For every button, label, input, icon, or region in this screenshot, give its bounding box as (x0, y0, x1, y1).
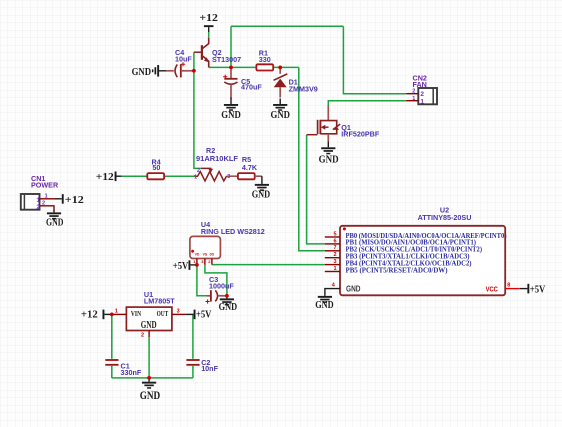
svg-text:GND: GND (221, 109, 241, 121)
wire Q2 emitter to R1 left (209, 66, 257, 68)
wire U4 +5V node down to C3 (197, 265, 207, 296)
ground (below C5) (221, 98, 241, 122)
svg-text:GND: GND (346, 285, 361, 294)
svg-text:91AR10KLF: 91AR10KLF (196, 154, 239, 163)
wire R1 right to vertical (273, 66, 299, 68)
svg-text:8: 8 (507, 283, 510, 289)
svg-text:VCC: VCC (486, 285, 499, 294)
transistor Q2 (194, 38, 209, 67)
svg-text:6: 6 (333, 238, 336, 244)
svg-text:VD: VD (195, 252, 200, 256)
wire C1 down to bottom rail (111, 366, 113, 378)
junction emitter node (229, 66, 233, 70)
wire bottom rail (112, 377, 193, 379)
svg-text:1: 1 (115, 308, 118, 314)
svg-text:10uF: 10uF (175, 55, 192, 64)
svg-text:GND: GND (141, 320, 157, 331)
junction R1/D1 (278, 66, 282, 70)
svg-text:GND: GND (46, 217, 64, 228)
junction U4 +5V (195, 263, 199, 267)
svg-text:+5V: +5V (530, 284, 546, 296)
wire Q1 gate to U2 pin6 PB1 (307, 135, 325, 244)
svg-text:1: 1 (412, 96, 415, 102)
wire +12 to Q2 collector (208, 32, 210, 38)
capacitor C5 (polarized) (223, 67, 237, 98)
svg-text:OUT: OUT (157, 310, 169, 318)
resistor R4 (147, 173, 164, 179)
svg-text:1: 1 (333, 266, 336, 272)
wire U4 DOUT to U2 pin3 PB4 (212, 264, 325, 266)
wire U1 pin1 node down to C1 (111, 314, 113, 358)
svg-text:POWER: POWER (31, 181, 59, 190)
svg-text:1000uF: 1000uF (209, 282, 234, 291)
capacitor C3 (polarized) (206, 290, 227, 303)
wire node to U2 pin7 PB2 (299, 67, 325, 250)
svg-text:1: 1 (36, 197, 40, 204)
capacitor C4 (polarized) (166, 62, 194, 77)
ground (U1 rail) (140, 378, 161, 402)
power +12 (CN1) (55, 194, 84, 206)
junction U1 pin1 (110, 313, 114, 317)
zener diode D1 (274, 67, 288, 97)
connector CN1 (21, 194, 55, 212)
svg-text:4.7K: 4.7K (242, 163, 258, 172)
power +5V (U4) (173, 260, 197, 272)
svg-text:2: 2 (420, 91, 424, 98)
power +12 top (199, 12, 218, 32)
svg-text:330nF: 330nF (121, 368, 142, 377)
capacitor C2 (186, 359, 199, 366)
svg-text:VS: VS (203, 252, 208, 256)
svg-text:+12: +12 (199, 12, 218, 24)
wire down to CN2 pin2 (343, 26, 406, 93)
IC U1 LM7805T (112, 307, 186, 338)
ground (R5) (252, 176, 271, 201)
svg-text:2: 2 (42, 201, 45, 207)
wire U1 pin2 to rail (148, 337, 150, 378)
svg-text:GND: GND (319, 154, 339, 166)
wire C4 node down to R2 wiper (194, 52, 201, 168)
ground flag (left of C4) (132, 65, 166, 78)
svg-text:ZMM3V9: ZMM3V9 (289, 85, 318, 94)
svg-text:GND: GND (132, 66, 152, 78)
svg-text:ST13007: ST13007 (212, 55, 241, 64)
svg-text:GND: GND (219, 301, 238, 313)
junction C3 GND (225, 294, 229, 298)
connector CN2 (406, 88, 437, 106)
svg-text:DO: DO (210, 252, 215, 256)
svg-text:3: 3 (227, 174, 230, 180)
svg-text:GND: GND (315, 299, 334, 311)
wire C2 down to rail (192, 366, 194, 378)
svg-text:FAN: FAN (413, 80, 427, 89)
svg-text:GND: GND (271, 109, 291, 121)
svg-text:IRF520PBF: IRF520PBF (341, 130, 380, 139)
IC U2 ATTINY85-20SU (325, 226, 520, 296)
svg-text:VIN: VIN (131, 310, 141, 318)
svg-text:50: 50 (152, 163, 160, 172)
wire R4 to R2 pin1 (164, 175, 194, 177)
svg-text:5: 5 (333, 231, 336, 237)
power +12 (R4) (96, 171, 121, 183)
svg-text:ATTINY85-20SU: ATTINY85-20SU (418, 213, 472, 222)
svg-text:7: 7 (333, 245, 336, 251)
wire top horizontal to FAN (231, 25, 343, 27)
svg-text:2: 2 (36, 204, 40, 211)
svg-text:3: 3 (333, 259, 336, 265)
wire CN2 pin1 to Q1 drain (328, 101, 406, 105)
svg-text:1: 1 (420, 99, 424, 106)
svg-text:1: 1 (194, 174, 197, 180)
power +12 (U1) (81, 309, 112, 321)
pin 4 GND (325, 289, 340, 296)
junction C4/base (192, 69, 196, 73)
svg-text:10nF: 10nF (201, 364, 218, 373)
svg-text:+12: +12 (81, 309, 98, 321)
svg-text:+12: +12 (96, 171, 115, 183)
wire +12 to R4 (121, 175, 147, 177)
ground (CN1 pin2) (46, 211, 64, 229)
svg-text:2: 2 (141, 332, 144, 338)
svg-text:470uF: 470uF (241, 83, 262, 92)
svg-text:3: 3 (177, 308, 180, 314)
wire +5V corner down to C2 (192, 315, 194, 359)
ground (below D1) (271, 99, 291, 122)
svg-text:1: 1 (45, 194, 48, 200)
transistor Q1 MOSFET (307, 105, 341, 142)
svg-text:GND: GND (252, 189, 271, 201)
resistor R5 (227, 173, 262, 179)
capacitor C1 (105, 359, 118, 366)
svg-text:LM7805T: LM7805T (144, 296, 175, 305)
svg-text:PB5 (PCINT5/RESET/ADC0/DW): PB5 (PCINT5/RESET/ADC0/DW) (346, 266, 449, 274)
svg-text:GND: GND (140, 390, 161, 402)
resistor R1 (256, 64, 273, 70)
IC U4 RING LED WS2812 (190, 236, 221, 265)
ground (below Q1) (319, 142, 339, 166)
svg-text:+12: +12 (65, 194, 85, 206)
ground (C3) (219, 296, 238, 313)
pin 8 VCC (505, 288, 520, 290)
svg-text:2: 2 (333, 252, 336, 258)
svg-text:+5V: +5V (196, 309, 212, 321)
potentiometer R2 (195, 168, 227, 181)
svg-text:+5V: +5V (173, 260, 189, 272)
svg-text:RING LED WS2812: RING LED WS2812 (201, 227, 265, 236)
wire U4 VSS pin to GND node (205, 265, 227, 296)
power +5V (U1) (186, 309, 212, 321)
ground (U2 pin4) (315, 296, 334, 311)
svg-text:330: 330 (259, 55, 271, 64)
svg-text:2: 2 (197, 168, 200, 174)
power +5V (U2) (520, 284, 546, 296)
wire emitter node up (230, 26, 232, 67)
junction bottom rail (147, 376, 151, 380)
svg-text:2: 2 (412, 89, 415, 95)
